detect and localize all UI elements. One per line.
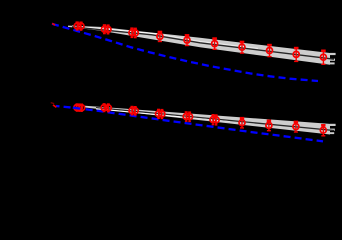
top point x=77.2 [74, 23, 80, 30]
bottom point x=132 [129, 107, 135, 115]
bottom white fit line [96, 109, 180, 117]
bottom point x=323.3 [320, 125, 326, 136]
top blue dashed curve [52, 24, 318, 81]
top point x=159.9 [157, 32, 163, 42]
top red clipped first point [52, 23, 55, 25]
bottom point x=76.9 [74, 105, 80, 112]
bottom point x=216.1 [213, 116, 219, 125]
bottom point x=79.3 [76, 105, 82, 112]
top dark model curve [72, 27, 334, 59]
top white fit line [72, 26, 160, 34]
bottom band ragged right end [330, 124, 336, 134]
bottom point x=295.9 [293, 122, 299, 132]
top point x=269.5 [267, 45, 273, 57]
top fit band [68, 26, 330, 65]
bottom point x=104.1 [101, 104, 107, 111]
bottom point x=213 [210, 115, 216, 124]
top point x=187 [184, 35, 190, 45]
top point x=296.2 [293, 48, 299, 61]
bottom point x=161.9 [159, 110, 165, 118]
top point x=214.6 [212, 39, 218, 50]
bottom point x=189.6 [187, 113, 193, 122]
top point x=104.4 [101, 26, 107, 34]
bottom point x=242 [239, 118, 245, 128]
top point x=323.4 [320, 51, 326, 65]
top point x=242 [239, 42, 245, 53]
bottom dark model curve [96, 108, 334, 131]
top point x=108 [105, 26, 111, 34]
bottom red clipped first point [53, 105, 56, 107]
top point x=81 [78, 23, 84, 30]
bottom faint red mark [51, 103, 55, 104]
top point x=131.9 [129, 29, 135, 38]
bottom point x=268.9 [266, 121, 272, 131]
bottom point x=186.2 [183, 113, 189, 122]
bottom point x=108.3 [105, 105, 111, 112]
bottom point x=135.2 [132, 107, 138, 115]
bottom point x=158.5 [156, 110, 162, 118]
bottom fit band [85, 106, 330, 135]
bottom point x=81.7 [79, 105, 85, 112]
blue dash overlay across bottom-left cluster [73, 107, 80, 110]
top point x=135.3 [132, 29, 138, 38]
top band ragged right end [330, 53, 336, 65]
bottom blue dashed curve [56, 106, 323, 141]
